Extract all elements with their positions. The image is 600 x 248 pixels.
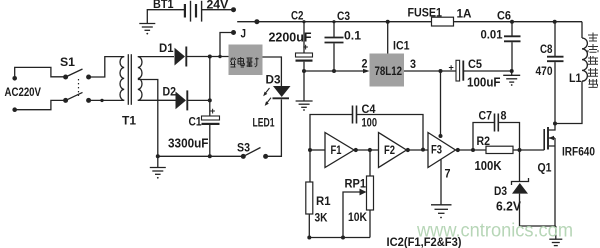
svg-text:R2: R2 [477, 134, 491, 148]
wire top rail right [454, 20, 583, 24]
capacitor C5 [449, 60, 464, 81]
svg-text:C4: C4 [362, 102, 376, 116]
S1 gang dotted link [78, 79, 80, 96]
wire D2 to C1 column [188, 98, 212, 102]
svg-text:0.01: 0.01 [481, 28, 503, 42]
transformer T1 core [128, 54, 131, 105]
svg-text:8: 8 [501, 109, 507, 123]
fuse FUSE1 [432, 17, 454, 26]
node AC input terminal top [12, 76, 17, 81]
svg-text:3: 3 [410, 57, 416, 71]
inductor L1 [555, 22, 587, 124]
wire AC bottom to S1 [15, 100, 66, 109]
wire F1 output to F2 [354, 148, 379, 152]
svg-text:1A: 1A [457, 7, 472, 21]
svg-text:100K: 100K [475, 159, 502, 173]
mosfet Q1 gate bar [543, 129, 545, 150]
capacitor C1 [202, 106, 220, 125]
resistor R1 [306, 150, 313, 238]
svg-text:C7: C7 [479, 109, 493, 123]
wire F3 output [456, 148, 487, 152]
svg-text:D2: D2 [163, 85, 177, 99]
LED LED1 [273, 86, 291, 98]
relay box J [229, 45, 263, 76]
svg-text:2200uF: 2200uF [269, 31, 312, 45]
wire S1 top to transformer primary top [89, 57, 125, 77]
svg-text:C5: C5 [468, 57, 482, 71]
svg-text:LED1: LED1 [253, 116, 275, 130]
svg-text:C8: C8 [540, 42, 553, 56]
svg-text:100: 100 [362, 116, 378, 130]
node J terminal [231, 30, 236, 35]
switch S1 pole2 [63, 92, 91, 103]
wire F1 input [308, 148, 325, 152]
svg-text:0.1: 0.1 [344, 29, 361, 43]
svg-text:D3: D3 [494, 184, 507, 198]
wire F3 power from 12V rail [439, 71, 443, 138]
op-amp F1 [325, 133, 354, 168]
op-amp F2 [379, 133, 407, 168]
svg-text:IC1: IC1 [393, 39, 410, 53]
svg-text:C2: C2 [291, 9, 304, 23]
ground below C2 [296, 71, 313, 111]
wire rectifier column down to C1 [209, 57, 211, 117]
svg-text:F3: F3 [431, 143, 442, 157]
capacitor C8 [547, 22, 564, 124]
svg-text:D3: D3 [266, 73, 281, 87]
zener diode D3 [512, 150, 529, 226]
ground at battery [139, 24, 155, 35]
wire regulator output rail [404, 69, 456, 73]
svg-text:F1: F1 [331, 143, 342, 157]
svg-text:3K: 3K [315, 211, 328, 225]
svg-text:FUSE1: FUSE1 [408, 6, 443, 20]
wire secondary bottom to D2 [138, 99, 176, 101]
wire secondary center tap down to ground [138, 80, 158, 157]
wire top rail middle [302, 20, 431, 24]
wire battery positive to contact [202, 7, 236, 12]
svg-text:IRF640: IRF640 [562, 145, 595, 159]
potentiometer RP1 [367, 150, 374, 238]
svg-text:10K: 10K [348, 210, 367, 224]
switch S3 [241, 148, 268, 159]
RP1 wiper arrow [343, 189, 367, 238]
svg-text:100uF: 100uF [467, 76, 501, 90]
svg-text:AC220V: AC220V [5, 85, 42, 99]
wire battery negative to ground [147, 10, 185, 24]
relay contact gap / top rail start [237, 19, 304, 24]
capacitor C6 [504, 22, 521, 71]
wire C5 to ground junction [463, 69, 513, 73]
ground below F3 [431, 205, 452, 219]
mosfet Q1 body arrow [549, 136, 555, 141]
diode D2 [176, 90, 188, 110]
LED1 emission arrows [263, 88, 271, 106]
svg-text:+: + [210, 106, 215, 116]
op-amp F3 [428, 133, 456, 168]
svg-text:C1: C1 [189, 115, 202, 129]
svg-text:L1: L1 [569, 71, 582, 85]
resistor R2 [486, 146, 520, 153]
capacitor C4 feedback [310, 106, 423, 151]
wire C1 down to bottom rail [209, 125, 211, 156]
svg-text:6.2V: 6.2V [496, 200, 522, 214]
ground at C5 [503, 71, 520, 86]
relay box text 继电器J [231, 57, 259, 67]
svg-text:S3: S3 [237, 141, 250, 155]
svg-text:+: + [449, 63, 454, 73]
transformer T1 secondary winding [138, 57, 142, 101]
wire D1 to relay box [186, 55, 228, 59]
vertical text 电磁能发送 [588, 33, 598, 88]
capacitor C2 [296, 22, 313, 71]
capacitor C3 [325, 22, 344, 71]
wire oscillator bottom rail [307, 236, 370, 240]
transformer T1 primary winding [120, 57, 124, 101]
svg-text:S1: S1 [60, 55, 75, 69]
svg-text:T1: T1 [122, 114, 136, 128]
ground under transformer [150, 156, 166, 178]
diode D1 [175, 47, 187, 67]
mosfet Q1 drain connection [549, 122, 557, 131]
capacitor C7 parallel branch [473, 114, 520, 151]
svg-text:78L12: 78L12 [375, 64, 403, 78]
switch S1 pole1 [63, 69, 91, 80]
svg-text:3300uF: 3300uF [168, 137, 209, 151]
wire relay box to LED anode [263, 57, 282, 86]
wire regulator input rail [302, 69, 370, 74]
wire D1 rail to battery J terminal [220, 33, 234, 57]
mosfet Q1 channel bar [547, 127, 549, 150]
svg-text:J: J [241, 27, 247, 41]
battery BT1 [185, 1, 202, 22]
svg-text:Q1: Q1 [538, 161, 552, 175]
wire zener to source [520, 225, 556, 227]
svg-text:R1: R1 [316, 194, 331, 208]
svg-text:2: 2 [362, 57, 368, 71]
wire S3 to LED column [266, 100, 282, 157]
node AC input terminal bottom [12, 107, 17, 112]
svg-text:D1: D1 [159, 41, 174, 55]
wire bottom rail [156, 154, 244, 158]
mosfet Q1 source [549, 138, 555, 226]
svg-text:470: 470 [536, 64, 553, 78]
svg-text:F2: F2 [384, 143, 395, 157]
wire F3 ground stem [440, 159, 442, 205]
ground at source [549, 226, 562, 246]
wire gate lead [518, 148, 545, 152]
wire F2 output to F3 [406, 148, 428, 152]
wire AC top to S1 [15, 67, 66, 78]
svg-text:IC2(F1,F2&F3): IC2(F1,F2&F3) [387, 235, 462, 248]
wire S1 bottom to transformer primary bottom [89, 99, 125, 102]
svg-text:RP1: RP1 [345, 177, 367, 191]
svg-text:C6: C6 [497, 9, 511, 23]
regulator IC1 78L12 box [370, 22, 405, 87]
wire secondary top to D1 [138, 56, 174, 58]
svg-text:7: 7 [445, 167, 451, 181]
svg-text:C3: C3 [337, 9, 350, 23]
